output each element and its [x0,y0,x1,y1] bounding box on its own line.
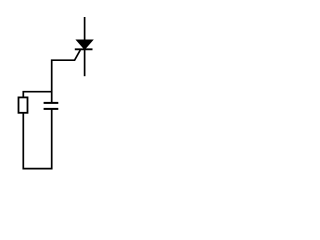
capacitor C1 bottom plate [44,108,59,110]
thyristor U1 gate lead and wire to capacitor top [52,50,81,103]
thyristor U1 anode lead [84,17,86,41]
thyristor U1 triangle [76,40,93,50]
thyristor U1 cathode bar [75,48,93,50]
wire branch to resistor R1 [23,92,52,98]
thyristor U1 cathode lead [84,49,86,76]
capacitor C1 top plate [44,102,59,104]
resistor R1 body [19,97,28,112]
wire bottom loop [23,109,51,169]
